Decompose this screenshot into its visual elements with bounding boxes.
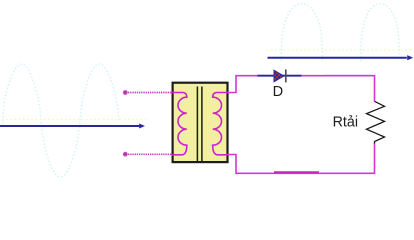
- resistor Rtai zigzag: [367, 101, 385, 143]
- wire: primary bottom lead (dashed magenta): [128, 153, 172, 155]
- wire: bottom rail doubled segment: [274, 171, 319, 173]
- wire: top rail darker segment: [325, 75, 373, 77]
- diode D triangle: [274, 70, 284, 81]
- input axis (dotted yellow): [2, 118, 146, 120]
- output rectified waveform hump 2 (dotted cyan): [361, 4, 400, 61]
- wire: diode lead (navy): [258, 75, 302, 77]
- transformer secondary winding: [213, 93, 228, 155]
- wire: secondary bottom and bottom rail: [228, 143, 375, 173]
- output arrow (navy): [268, 57, 407, 59]
- svg-text:Rtải: Rtải: [333, 114, 358, 130]
- transformer primary winding: [172, 93, 187, 155]
- transformer T1 body: [173, 83, 228, 162]
- input sine waveform (dotted cyan): [3, 64, 119, 177]
- diode D cathode bar: [285, 69, 287, 82]
- output rectified waveform hump 1 (dotted cyan): [281, 4, 322, 61]
- wire: primary top lead (dashed magenta): [128, 92, 172, 94]
- primary terminal node bottom: [123, 152, 128, 157]
- input arrow (navy): [0, 125, 139, 127]
- output axis (dotted yellow): [267, 49, 412, 51]
- transformer core lines: [197, 87, 202, 162]
- primary terminal node top: [123, 90, 128, 95]
- wire: secondary top to rail: [228, 76, 375, 102]
- svg-text:D: D: [273, 84, 284, 100]
